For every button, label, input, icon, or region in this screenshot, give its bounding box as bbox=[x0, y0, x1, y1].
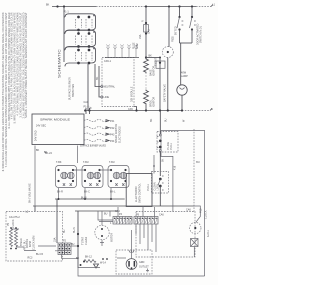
door activated switch branch bbox=[190, 7, 203, 46]
DSI module box bbox=[101, 58, 134, 107]
spark output wire 4 bbox=[84, 139, 115, 143]
svg-text:24V SEC: 24V SEC bbox=[36, 125, 46, 128]
svg-text:CLEAN: CLEAN bbox=[85, 237, 88, 245]
svg-text:W-14: W-14 bbox=[100, 262, 106, 265]
svg-text:LOCK: LOCK bbox=[157, 183, 160, 190]
connector strip A bbox=[113, 217, 132, 225]
resistor bottom bbox=[84, 260, 96, 263]
svg-text:5. WIRE COLOR CODE: BK BLACK: 5. WIRE COLOR CODE: BK BLACK BU BLUE BR … bbox=[14, 12, 17, 123]
svg-text:CA6: CA6 bbox=[186, 209, 191, 212]
svg-text:SURFACE BURNER VALVES: SURFACE BURNER VALVES bbox=[80, 145, 106, 148]
svg-text:CLOCK: CLOCK bbox=[12, 219, 15, 228]
wire left bus bbox=[63, 7, 65, 63]
fuse F1 bbox=[133, 7, 153, 123]
svg-text:OVEN CONTROL: OVEN CONTROL bbox=[139, 183, 142, 203]
clock box bbox=[6, 212, 63, 262]
junction dots top rail bbox=[145, 5, 147, 7]
wire valve bus 2 bbox=[26, 146, 195, 214]
oven lamp bbox=[177, 43, 188, 111]
svg-text:IGNITOR: IGNITOR bbox=[152, 66, 155, 76]
surface burner switch 1 bbox=[64, 14, 96, 34]
wire door switch down bbox=[159, 152, 161, 177]
connector strip B bbox=[134, 217, 158, 225]
svg-text:P-C11: P-C11 bbox=[147, 184, 150, 191]
wires into strips bbox=[118, 206, 155, 217]
wire neutral from switches bbox=[95, 64, 101, 87]
svg-text:BU: BU bbox=[104, 213, 108, 216]
junction dots igniter bbox=[145, 76, 147, 89]
node N bbox=[210, 109, 212, 111]
svg-text:7. CLOCK AND CONTROL TERMINALS: 7. CLOCK AND CONTROL TERMINALS ARE SHOWN… bbox=[5, 12, 8, 167]
svg-text:15A: 15A bbox=[139, 34, 142, 39]
svg-text:BU: BU bbox=[71, 243, 75, 246]
clock connector P1 bbox=[58, 243, 64, 255]
node top of oven branch bbox=[145, 56, 147, 58]
svg-text:MOTOR: MOTOR bbox=[26, 239, 29, 248]
spark module box bbox=[32, 114, 84, 155]
svg-text:T-BK: T-BK bbox=[56, 161, 62, 164]
svg-text:CLOCK: CLOCK bbox=[205, 210, 208, 219]
svg-text:P1-3: P1-3 bbox=[84, 106, 90, 109]
convection motor branch bbox=[162, 7, 174, 111]
wire valve links bbox=[73, 169, 111, 171]
surface burner switch 2 bbox=[64, 30, 96, 50]
control module box bottom right bbox=[136, 212, 195, 258]
svg-text:BK: BK bbox=[36, 149, 40, 152]
oven thermostat line bbox=[77, 211, 88, 268]
svg-text:BK-12: BK-12 bbox=[85, 256, 93, 259]
svg-text:CA3: CA3 bbox=[84, 101, 89, 104]
svg-text:BK: BK bbox=[150, 118, 153, 122]
svg-text:416: 416 bbox=[174, 165, 177, 170]
wire neutral rail feed bbox=[87, 64, 89, 111]
receptacle outlet bbox=[117, 250, 149, 272]
svg-text:GRD: GRD bbox=[139, 261, 145, 264]
svg-text:4. IF ANY ORIGINAL WIRE IS REP: 4. IF ANY ORIGINAL WIRE IS REPLACED USE … bbox=[17, 12, 20, 115]
svg-text:SWITCH (N.O.): SWITCH (N.O.) bbox=[200, 26, 203, 43]
wire clock to tstat bbox=[71, 245, 78, 247]
door lock switch bbox=[152, 172, 169, 194]
svg-text:CA5-1: CA5-1 bbox=[104, 60, 112, 63]
wire bottom loop bbox=[78, 268, 205, 277]
svg-text:6. ALL SWITCHES ARE SHOWN WITH: 6. ALL SWITCHES ARE SHOWN WITH CONTACTS … bbox=[8, 12, 11, 128]
svg-text:BK-R: BK-R bbox=[57, 191, 63, 194]
clock coil L1 bbox=[10, 229, 13, 247]
svg-text:Y YELLOW T TAN V VIOLET PK: Y YELLOW T TAN V VIOLET PK PINK GN GREEN… bbox=[11, 12, 14, 119]
svg-text:BU-15: BU-15 bbox=[36, 253, 44, 256]
svg-text:BK: BK bbox=[76, 257, 80, 260]
svg-text:NEUTRAL: NEUTRAL bbox=[104, 86, 116, 89]
wire bus to clock plugs bbox=[56, 199, 58, 243]
surface burner switch 3 bbox=[64, 47, 96, 67]
wire valve bus 1 bbox=[55, 188, 125, 200]
spark output wire 2 bbox=[84, 127, 115, 131]
svg-text:SCHEMATIC: SCHEMATIC bbox=[56, 49, 61, 78]
svg-text:BK: BK bbox=[149, 55, 153, 58]
svg-text:8. SPARK MODULE AND CONTROL AR: 8. SPARK MODULE AND CONTROL ARE GROUNDED… bbox=[2, 12, 5, 171]
wire P1-3 stubs bbox=[84, 101, 90, 114]
svg-text:CLOCK ASM: CLOCK ASM bbox=[33, 236, 36, 250]
svg-text:BU: BU bbox=[164, 118, 167, 122]
strip hatching bbox=[114, 218, 132, 223]
arrow connector bbox=[94, 264, 99, 268]
svg-text:125V: 125V bbox=[136, 43, 139, 49]
wire N rail bbox=[86, 110, 182, 112]
svg-text:CA1 P5-2: CA1 P5-2 bbox=[9, 216, 20, 219]
wire into control bbox=[153, 155, 155, 174]
clock wires bbox=[11, 229, 56, 251]
wire to burner valves bbox=[77, 146, 79, 164]
wire L1 top rail bbox=[52, 6, 96, 8]
node dots bottom bbox=[80, 264, 82, 266]
svg-text:CA4: CA4 bbox=[115, 210, 120, 213]
bake igniter bbox=[144, 58, 156, 77]
svg-text:A-C11: A-C11 bbox=[207, 230, 210, 237]
svg-text:ELECTRODES: ELECTRODES bbox=[118, 126, 121, 143]
blower motor bbox=[95, 211, 114, 246]
svg-text:MOTOR: MOTOR bbox=[111, 233, 114, 242]
oven thermostat branch bbox=[155, 58, 167, 111]
svg-text:T'STAT: T'STAT bbox=[155, 58, 158, 66]
svg-text:CA6: CA6 bbox=[159, 214, 164, 217]
svg-text:90 TCO: 90 TCO bbox=[174, 26, 177, 35]
spark electrode pins bbox=[105, 45, 139, 58]
svg-text:R: R bbox=[142, 20, 145, 22]
svg-text:IGNITOR: IGNITOR bbox=[152, 97, 155, 107]
svg-text:CA1: CA1 bbox=[148, 29, 151, 34]
svg-text:BK: BK bbox=[96, 76, 99, 80]
svg-text:BU: BU bbox=[196, 161, 200, 164]
svg-text:N: N bbox=[211, 108, 213, 111]
wire valve bus 3 bbox=[75, 210, 118, 212]
clock connector P2 bbox=[65, 243, 71, 255]
svg-text:T-BU: T-BU bbox=[109, 161, 115, 164]
svg-text:T-BU: T-BU bbox=[83, 161, 89, 164]
wire DSI to rail bbox=[134, 107, 137, 111]
svg-text:LAMP: LAMP bbox=[181, 75, 188, 78]
wire receptacle feed bbox=[131, 230, 133, 252]
svg-text:SPARK MODULE: SPARK MODULE bbox=[40, 118, 70, 122]
hot surface switch branch bbox=[174, 7, 196, 44]
burner valve V1 bbox=[56, 161, 77, 194]
svg-text:P302: P302 bbox=[172, 36, 175, 42]
notes text block bbox=[2, 12, 28, 171]
svg-text:DSI MODULE: DSI MODULE bbox=[131, 86, 134, 102]
svg-text:3. CHECK ALL CONNECTIONS BEFOR: 3. CHECK ALL CONNECTIONS BEFORE OPERATIN… bbox=[19, 12, 22, 118]
svg-text:BK: BK bbox=[44, 151, 48, 154]
junction dots N rail bbox=[84, 109, 86, 111]
svg-text:P10: P10 bbox=[200, 208, 203, 213]
wire lamp node bbox=[180, 42, 193, 44]
svg-text:BU: BU bbox=[63, 229, 66, 233]
clock coil L2 bbox=[15, 229, 18, 247]
wire tag labels bbox=[63, 20, 186, 243]
wire line from switches bbox=[99, 66, 101, 97]
svg-text:NOTES: 1. DISCONNECT POWER SUP: NOTES: 1. DISCONNECT POWER SUPPLY BEFORE… bbox=[25, 12, 28, 118]
svg-text:SAFETY VALVE: SAFETY VALVE bbox=[164, 84, 167, 102]
svg-text:P-C11: P-C11 bbox=[170, 143, 173, 150]
receptacle box bbox=[116, 250, 152, 274]
svg-text:RC3: RC3 bbox=[28, 257, 34, 260]
broil igniter bbox=[144, 90, 156, 112]
svg-text:SWITCHES: SWITCHES bbox=[72, 84, 75, 97]
svg-text:LINE: LINE bbox=[104, 96, 110, 99]
svg-text:24V GND: 24V GND bbox=[35, 130, 38, 141]
spark output wire 3 bbox=[84, 133, 115, 137]
svg-text:BU-5: BU-5 bbox=[73, 227, 76, 233]
svg-text:BK: BK bbox=[46, 4, 50, 7]
lock switch bbox=[191, 239, 199, 258]
svg-text:P41: P41 bbox=[110, 120, 115, 123]
door enclosure outline bbox=[161, 131, 205, 277]
oven control box bbox=[126, 174, 152, 207]
svg-text:15A: 15A bbox=[54, 237, 57, 242]
svg-text:OUTLET: OUTLET bbox=[139, 266, 149, 269]
svg-text:FUSE: FUSE bbox=[133, 42, 136, 49]
door switch bbox=[157, 111, 173, 152]
burner valve V2 bbox=[82, 161, 103, 194]
burner valve V3 bbox=[108, 161, 129, 194]
node L1 bbox=[211, 5, 213, 7]
fan-out below strip B bbox=[136, 224, 156, 252]
svg-text:2. ALL WIRING MUST CONFORM TO: 2. ALL WIRING MUST CONFORM TO LOCAL CODE… bbox=[22, 12, 25, 118]
spark output wire 1 bbox=[84, 120, 115, 124]
svg-text:BK: BK bbox=[162, 158, 165, 162]
svg-text:BK-7 (BU) VALVE: BK-7 (BU) VALVE bbox=[29, 183, 32, 203]
door lock motor bbox=[186, 206, 210, 237]
